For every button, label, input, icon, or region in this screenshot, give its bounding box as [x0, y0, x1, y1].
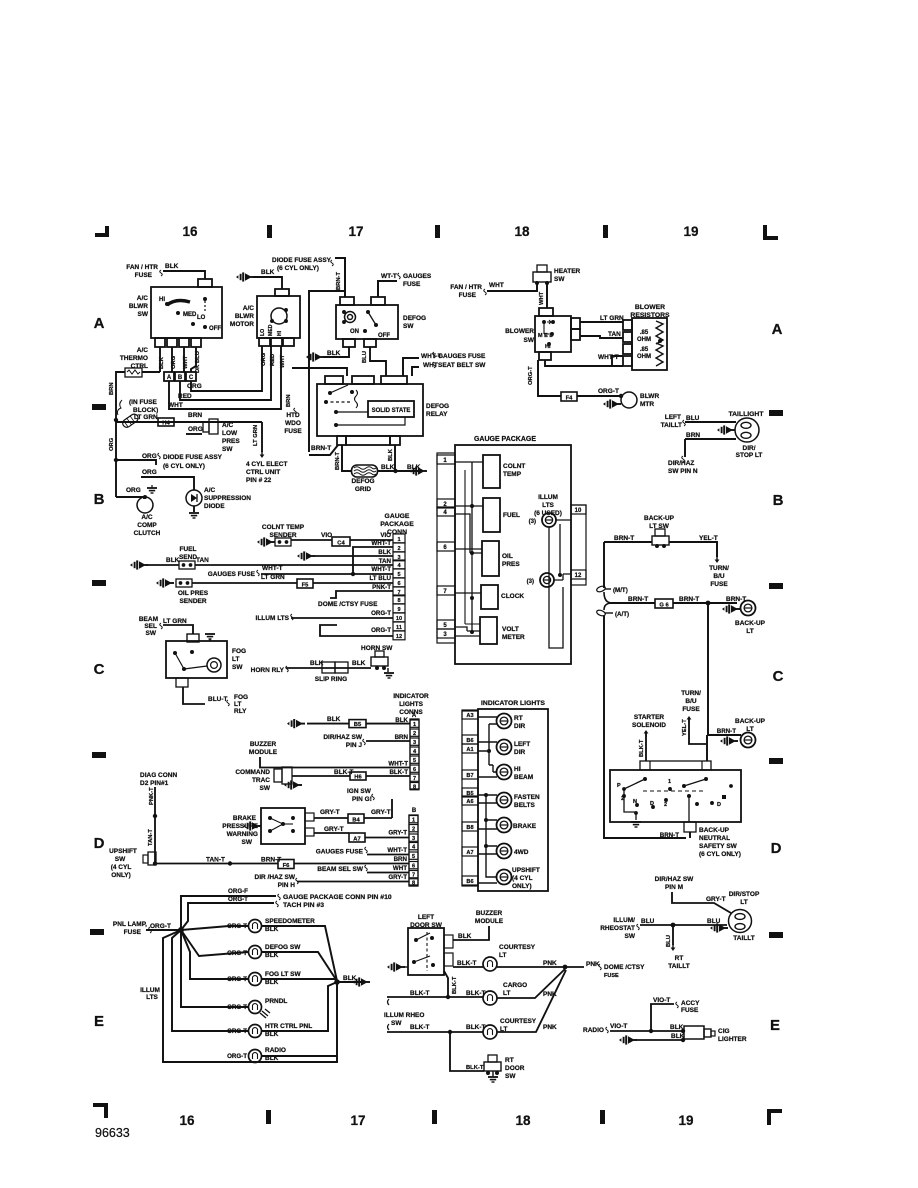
top tick 17/18: [435, 225, 440, 238]
cargo lamp: [483, 991, 497, 1005]
left edge dash A/B: [92, 404, 106, 410]
right edge dash C/D: [769, 758, 783, 764]
svg-text:WHT: WHT: [423, 362, 438, 369]
wire radio lamp to bus: [262, 1055, 337, 1057]
svg-text:COMMAND: COMMAND: [235, 769, 270, 776]
wire WHT from connector A to blower motor: [169, 346, 281, 409]
svg-text:BLOCK): BLOCK): [133, 407, 158, 414]
svg-text:ORG-T: ORG-T: [227, 1028, 247, 1035]
horn switch symbol: [371, 657, 388, 666]
fuse B5: [349, 720, 366, 728]
ground with BLK at blower motor feed: [236, 272, 254, 281]
svg-text:RADIO: RADIO: [265, 1047, 286, 1054]
svg-text:ORG-T: ORG-T: [227, 923, 247, 930]
svg-text:ORG-T: ORG-T: [227, 1053, 247, 1060]
indicator connector strip A pins: [410, 720, 419, 727]
svg-text:A: A: [94, 315, 105, 332]
arrow below starter solenoid: [645, 732, 647, 737]
svg-text:LT GRN: LT GRN: [163, 618, 187, 625]
wire WHT-T switch to resistors: [545, 356, 623, 366]
svg-text:D: D: [771, 840, 782, 857]
svg-text:BRN-T: BRN-T: [628, 596, 648, 603]
wire defog sw lamp to bus: [262, 952, 337, 981]
wire bus to ground: [337, 981, 361, 983]
svg-text:THERMO: THERMO: [120, 355, 148, 362]
fog switch internals: [173, 651, 177, 655]
svg-text:LO: LO: [260, 329, 266, 336]
svg-text:ORG-T: ORG-T: [227, 976, 247, 983]
defog relay bottom tabs: [337, 436, 346, 445]
gauge package outer box: [455, 445, 571, 664]
left door switch right tabs: [444, 935, 453, 948]
svg-text:COURTESY: COURTESY: [499, 944, 536, 951]
wire BRN-T from diode fuse assy to defog switch: [335, 258, 345, 297]
wire horn rly to horn switch: [286, 667, 371, 669]
brake pressure warning switch box: [261, 808, 305, 844]
svg-text:FUSE: FUSE: [681, 1007, 699, 1014]
svg-text:ORG: ORG: [188, 426, 203, 433]
oil pressure gauge box: [482, 541, 499, 576]
svg-text:12: 12: [396, 634, 402, 640]
svg-text:SW: SW: [505, 1073, 516, 1080]
wire pnl fuse to junction: [146, 929, 181, 931]
fuse A7: [349, 833, 365, 842]
left door switch internals: [414, 938, 418, 942]
svg-text:CIG: CIG: [718, 1028, 730, 1035]
svg-text:VIO-T: VIO-T: [610, 1023, 627, 1030]
wire fork to G6: [610, 602, 655, 604]
svg-text:TAN: TAN: [608, 331, 621, 338]
svg-text:B: B: [773, 492, 784, 509]
svg-text:ORG-F: ORG-F: [228, 888, 248, 895]
squiggle to fog lt rly: [227, 700, 230, 706]
safety switch bottom tab: [684, 822, 696, 832]
wire junction down to RT TAILLT: [672, 925, 674, 945]
svg-text:HI: HI: [159, 297, 165, 303]
wire gauges fuse to pin B5: [367, 854, 409, 856]
svg-text:DOOR: DOOR: [505, 1065, 525, 1072]
gauge package connector strip pins 1-12: [393, 534, 405, 543]
left edge dash D/E: [90, 929, 104, 935]
svg-text:H6: H6: [354, 774, 362, 780]
fuse block cartouche: [121, 413, 140, 429]
svg-text:CTRL: CTRL: [131, 363, 148, 370]
wire BRN down left side: [116, 372, 125, 497]
svg-text:DIODE: DIODE: [204, 503, 225, 510]
svg-text:BLK: BLK: [381, 464, 395, 471]
svg-text:DEFOG: DEFOG: [351, 478, 374, 485]
svg-text:GAUGE PACKAGE: GAUGE PACKAGE: [474, 436, 536, 443]
svg-text:DEFOG: DEFOG: [403, 315, 426, 322]
svg-text:19: 19: [683, 224, 698, 239]
svg-text:2: 2: [397, 546, 400, 552]
svg-text:BRAKE: BRAKE: [513, 823, 537, 830]
svg-text:BLK: BLK: [458, 933, 472, 940]
wire sender to C4 to pin 1: [291, 539, 393, 541]
ground at blower motor: [603, 399, 621, 408]
svg-text:FUSE: FUSE: [284, 428, 302, 435]
svg-text:FASTEN: FASTEN: [514, 794, 540, 801]
svg-text:ORG: ORG: [187, 383, 202, 390]
svg-text:TAN-T: TAN-T: [148, 829, 154, 846]
svg-text:(6 CYL ONLY): (6 CYL ONLY): [699, 851, 741, 858]
svg-text:LIGHTS: LIGHTS: [399, 701, 423, 708]
svg-text:FAN / HTR: FAN / HTR: [450, 284, 482, 291]
svg-text:HI: HI: [514, 766, 521, 773]
svg-text:GAUGES FUSE: GAUGES FUSE: [208, 571, 256, 578]
svg-text:BLK-T: BLK-T: [452, 976, 458, 994]
svg-text:A: A: [412, 713, 417, 719]
svg-text:BLK: BLK: [327, 350, 341, 357]
svg-text:8: 8: [397, 598, 400, 604]
cig lighter symbol: [684, 1026, 704, 1039]
svg-text:.85: .85: [640, 330, 649, 336]
wire BLK down to connector A: [159, 347, 161, 372]
wire courtesy lamp to dome fuse junction: [497, 966, 565, 968]
wire backup switch right YEL-T to fuse: [669, 542, 717, 557]
svg-text:BRN-T: BRN-T: [717, 728, 736, 735]
prndl hatch marks: [260, 1009, 270, 1018]
svg-text:BLU: BLU: [362, 351, 368, 363]
svg-text:B5: B5: [354, 722, 362, 728]
svg-text:ORG-T: ORG-T: [528, 366, 534, 385]
svg-text:D: D: [94, 835, 105, 852]
indicator connector strip B pins: [409, 816, 418, 823]
svg-text:PIN J: PIN J: [346, 742, 363, 749]
svg-text:BLK-T: BLK-T: [639, 739, 645, 757]
svg-text:BLK: BLK: [261, 269, 275, 276]
wire B4 to ign sw vertical: [364, 817, 392, 819]
svg-text:VIO: VIO: [380, 532, 391, 539]
ground below safety switch: [631, 822, 641, 827]
svg-text:MED: MED: [183, 312, 197, 318]
svg-text:BRN: BRN: [188, 412, 202, 419]
svg-text:WHT: WHT: [539, 291, 545, 305]
wire relay to defog grid: [342, 445, 352, 471]
svg-text:DIR/: DIR/: [743, 445, 756, 452]
svg-text:BEAM: BEAM: [139, 616, 158, 623]
resistor zigzag lower: [656, 343, 663, 366]
svg-text:DIR: DIR: [514, 723, 526, 730]
svg-text:TAILLT: TAILLT: [733, 935, 754, 942]
svg-text:SOLID STATE: SOLID STATE: [372, 408, 411, 414]
svg-text:A: A: [772, 321, 783, 338]
back-up lamp row C: [741, 733, 756, 748]
svg-text:LT BLU: LT BLU: [369, 575, 391, 582]
wire gauges fuse to pin5 WHT-T: [261, 573, 393, 575]
gauge package left pin strip: [437, 453, 455, 643]
svg-text:P: P: [617, 783, 621, 789]
svg-text:F6: F6: [283, 863, 291, 869]
wire illum rheo to courtesy lamp 2: [387, 1031, 483, 1033]
wire beam sel to fog light switch: [163, 625, 193, 634]
svg-text:A7: A7: [466, 850, 473, 856]
svg-text:A3: A3: [466, 713, 473, 719]
wire down to 4cyl ctrl unit: [261, 422, 263, 452]
fan wire to defog sw lamp: [181, 930, 248, 956]
indicator lamp LEFT DIR: [497, 740, 512, 755]
outer loop wire left and bottom: [163, 930, 337, 1062]
defog grid element: [352, 465, 378, 477]
svg-text:ORG-T: ORG-T: [371, 627, 391, 634]
wire LT GRN switch to resistors: [580, 321, 623, 323]
svg-text:8: 8: [413, 784, 416, 790]
svg-text:BLK-T: BLK-T: [334, 769, 354, 776]
svg-text:ON: ON: [350, 329, 359, 335]
svg-text:TAILLIGHT: TAILLIGHT: [729, 411, 765, 418]
svg-text:TAILLT: TAILLT: [661, 422, 682, 429]
svg-text:LT: LT: [503, 990, 510, 997]
back-up lamp row B: [741, 601, 756, 616]
svg-text:(4 CYL: (4 CYL: [111, 864, 132, 871]
svg-text:A/C: A/C: [243, 305, 255, 312]
svg-text:BLK: BLK: [378, 549, 391, 556]
svg-text:SPEEDOMETER: SPEEDOMETER: [265, 918, 315, 925]
svg-text:LT: LT: [234, 701, 241, 708]
svg-text:DOME /CTSY FUSE: DOME /CTSY FUSE: [318, 601, 378, 608]
wire dir/haz to pin B8: [297, 881, 409, 883]
svg-text:SW: SW: [403, 323, 414, 330]
arrow below turn fuse row C: [688, 718, 690, 723]
svg-text:12: 12: [575, 573, 582, 579]
ground at pin A1 wire: [287, 719, 305, 728]
wire heater switch down to blower switch: [546, 283, 548, 308]
svg-text:A/C: A/C: [141, 514, 153, 521]
brake switch internals: [268, 816, 272, 820]
ground below suppression diode: [189, 513, 199, 518]
svg-text:WHT: WHT: [168, 402, 183, 409]
wire brake switch to B4: [314, 817, 348, 819]
svg-text:B/U: B/U: [713, 573, 725, 580]
svg-text:HORN RLY: HORN RLY: [251, 667, 285, 674]
connector tab on A/C blower switch: [198, 279, 212, 287]
svg-text:PNK: PNK: [586, 961, 600, 968]
svg-text:B4: B4: [352, 817, 360, 823]
svg-text:VOLT: VOLT: [502, 626, 519, 633]
svg-text:SW: SW: [242, 839, 253, 846]
fuse H4: [158, 418, 174, 426]
indicator lamp 4WD: [497, 844, 512, 859]
courtesy lamp lower: [483, 1025, 497, 1039]
defog switch top connector tabs: [340, 297, 354, 305]
solid state inner box: [368, 401, 414, 417]
svg-text:DEFOG SW: DEFOG SW: [265, 944, 301, 951]
wire htr ctrl lamp to bus: [262, 982, 337, 1031]
wire diode to ground: [193, 506, 195, 512]
svg-text:96633: 96633: [95, 1126, 130, 1140]
safety switch internal wires: [624, 789, 636, 820]
svg-text:ILLUM: ILLUM: [140, 987, 160, 994]
svg-text:SW: SW: [138, 311, 149, 318]
brake switch right tabs: [305, 813, 314, 821]
svg-text:ILLUM LTS: ILLUM LTS: [256, 615, 290, 622]
blower switch top tab: [539, 308, 553, 316]
indicator lights internal wires: [478, 717, 497, 751]
courtesy lamp upper: [483, 957, 497, 971]
wire pin A1 to B5 fuse to ground: [307, 723, 410, 725]
svg-text:HI: HI: [277, 330, 283, 336]
wire dir/haz pin M to lamp: [672, 892, 731, 913]
svg-text:LT: LT: [740, 899, 747, 906]
left edge dash C/D: [92, 752, 106, 758]
svg-text:ORG-T: ORG-T: [227, 950, 247, 957]
wire ORG to compressor clutch: [116, 497, 144, 499]
svg-text:D2 PIN#1: D2 PIN#1: [140, 780, 169, 787]
svg-text:B6: B6: [466, 879, 473, 885]
svg-text:WT-T: WT-T: [381, 273, 397, 280]
svg-text:(4 CYL: (4 CYL: [512, 875, 533, 882]
svg-text:YEL-T: YEL-T: [682, 719, 688, 736]
svg-text:LEFT: LEFT: [418, 914, 434, 921]
svg-text:PNK: PNK: [543, 960, 557, 967]
svg-text:E: E: [770, 1017, 780, 1034]
svg-text:A/C: A/C: [204, 487, 216, 494]
svg-text:16: 16: [182, 224, 198, 239]
svg-text:DIODE FUSE ASSY: DIODE FUSE ASSY: [163, 454, 223, 461]
svg-text:ONLY): ONLY): [512, 883, 532, 890]
fuse B4: [348, 814, 364, 823]
svg-text:(M/T): (M/T): [613, 587, 628, 594]
svg-text:BACK-UP: BACK-UP: [644, 515, 675, 522]
ground at lamp bus: [352, 977, 370, 986]
svg-text:.85: .85: [640, 347, 649, 353]
svg-text:LTS: LTS: [542, 502, 554, 509]
svg-text:ORG-T: ORG-T: [150, 923, 171, 930]
junction dot fuse block: [114, 418, 118, 422]
wire upshift to F6 to pin B6: [156, 863, 278, 865]
bottom-right registration mark: [767, 1109, 782, 1125]
svg-text:7: 7: [412, 872, 415, 878]
svg-text:BLK-T: BLK-T: [466, 1065, 484, 1071]
svg-text:PNK-T: PNK-T: [372, 584, 391, 591]
svg-text:A7: A7: [353, 836, 360, 842]
svg-text:PNL LAMP,: PNL LAMP,: [113, 921, 147, 928]
indicator lights pins: [462, 710, 478, 719]
svg-text:LIGHTER: LIGHTER: [718, 1036, 747, 1043]
svg-text:BLU: BLU: [707, 918, 721, 925]
svg-text:BLK: BLK: [343, 975, 357, 982]
svg-text:PIN # 22: PIN # 22: [246, 477, 272, 484]
svg-text:WHT-T: WHT-T: [371, 566, 391, 573]
svg-text:ILLUM RHEO: ILLUM RHEO: [384, 1012, 424, 1019]
svg-text:FUEL: FUEL: [503, 512, 520, 519]
svg-text:BLOWER: BLOWER: [635, 304, 665, 311]
wire buzzer module to door switch: [453, 926, 489, 940]
svg-text:ONLY): ONLY): [111, 872, 131, 879]
svg-text:BACK-UP: BACK-UP: [699, 827, 730, 834]
svg-text:BLK: BLK: [388, 448, 394, 461]
clock box: [481, 585, 498, 609]
svg-text:10: 10: [396, 616, 402, 622]
svg-text:BLU: BLU: [641, 918, 655, 925]
right taillight lamp: [729, 910, 752, 933]
svg-text:B/U: B/U: [685, 698, 697, 705]
svg-text:SEL: SEL: [144, 623, 157, 630]
svg-text:4WD: 4WD: [514, 849, 529, 856]
wire DK BLU down: [191, 347, 196, 372]
svg-text:DIR/HAZ SW: DIR/HAZ SW: [323, 734, 363, 741]
svg-text:GRY-T: GRY-T: [324, 826, 344, 833]
svg-text:C: C: [189, 375, 194, 381]
svg-text:(3): (3): [529, 519, 536, 525]
fork merge to main wire: [604, 592, 612, 610]
svg-text:GRY-T: GRY-T: [388, 830, 407, 837]
svg-text:11: 11: [396, 625, 402, 631]
wire command trac to H6 to pin A7: [292, 775, 410, 777]
svg-text:BLK-T: BLK-T: [389, 769, 408, 776]
wire ORG to suppression diode: [141, 477, 194, 490]
slip ring boxes: [322, 662, 335, 673]
wire F6 to pin B6: [294, 863, 409, 865]
right pin 12: [571, 570, 586, 579]
svg-text:LEFT: LEFT: [514, 741, 530, 748]
svg-text:E: E: [94, 1013, 104, 1030]
svg-text:COMP: COMP: [137, 522, 157, 529]
top-right registration mark: [763, 225, 778, 240]
wire to taillight: [685, 421, 736, 423]
svg-text:GAUGES: GAUGES: [403, 273, 432, 280]
svg-text:INDICATOR LIGHTS: INDICATOR LIGHTS: [481, 700, 545, 707]
M/T fork connector: [596, 585, 606, 593]
svg-text:A/C: A/C: [222, 422, 234, 429]
wire beam sel to pin B7: [367, 872, 409, 874]
indicator lamp BRAKE: [497, 818, 512, 833]
bottom tick 17/18: [432, 1110, 437, 1124]
svg-text:GAUGES FUSE: GAUGES FUSE: [316, 849, 364, 856]
ground left of brake switch: [243, 821, 261, 830]
svg-text:BLK-T: BLK-T: [410, 1024, 430, 1031]
svg-text:FUSE: FUSE: [124, 929, 142, 936]
svg-text:BLK-T: BLK-T: [457, 960, 477, 967]
wire ORG down to connector B: [171, 347, 173, 372]
svg-text:SW: SW: [554, 276, 565, 283]
wire G6 to back-up lamp: [673, 602, 737, 604]
svg-text:BACK-UP: BACK-UP: [735, 718, 766, 725]
fan wire to htr ctrl pnl lamp: [172, 930, 248, 1031]
svg-text:GAUGE: GAUGE: [385, 513, 410, 520]
left taillight lamp: [735, 418, 759, 442]
right edge dash D/E: [769, 932, 783, 938]
fan wire to speedometer lamp: [181, 926, 248, 930]
svg-text:OIL: OIL: [502, 553, 513, 560]
svg-text:WDO: WDO: [285, 420, 301, 427]
svg-text:LTS: LTS: [146, 994, 158, 1001]
svg-text:GAUGES FUSE: GAUGES FUSE: [438, 353, 486, 360]
upshift switch symbol: [148, 852, 156, 865]
svg-text:BRN: BRN: [286, 394, 292, 407]
svg-text:BLK: BLK: [166, 557, 180, 564]
svg-text:MED: MED: [268, 324, 274, 336]
svg-text:HEATER: HEATER: [554, 268, 581, 275]
svg-text:1: 1: [413, 722, 416, 728]
wire junction up to gauge package conn pin 10: [181, 896, 276, 930]
svg-text:(6 CYL ONLY): (6 CYL ONLY): [163, 463, 205, 470]
command trac switch symbol: [274, 769, 282, 782]
right edge dash A/B: [769, 410, 783, 416]
gauge package internal wiring bus: [455, 462, 483, 636]
svg-text:PIN M: PIN M: [665, 884, 683, 891]
svg-text:IGN SW: IGN SW: [347, 788, 372, 795]
wire down to dir/haz pin N: [684, 439, 686, 457]
svg-text:BRN-T: BRN-T: [335, 452, 341, 470]
svg-text:WHT-T: WHT-T: [371, 540, 391, 547]
wire junction down to row C: [708, 603, 741, 735]
svg-text:SW: SW: [115, 856, 126, 863]
indicator lights left pin strip: [462, 711, 478, 886]
svg-text:RT: RT: [514, 715, 523, 722]
wire defog switch to gauges fuse: [378, 281, 397, 297]
coolant temp sender symbol: [257, 537, 275, 546]
